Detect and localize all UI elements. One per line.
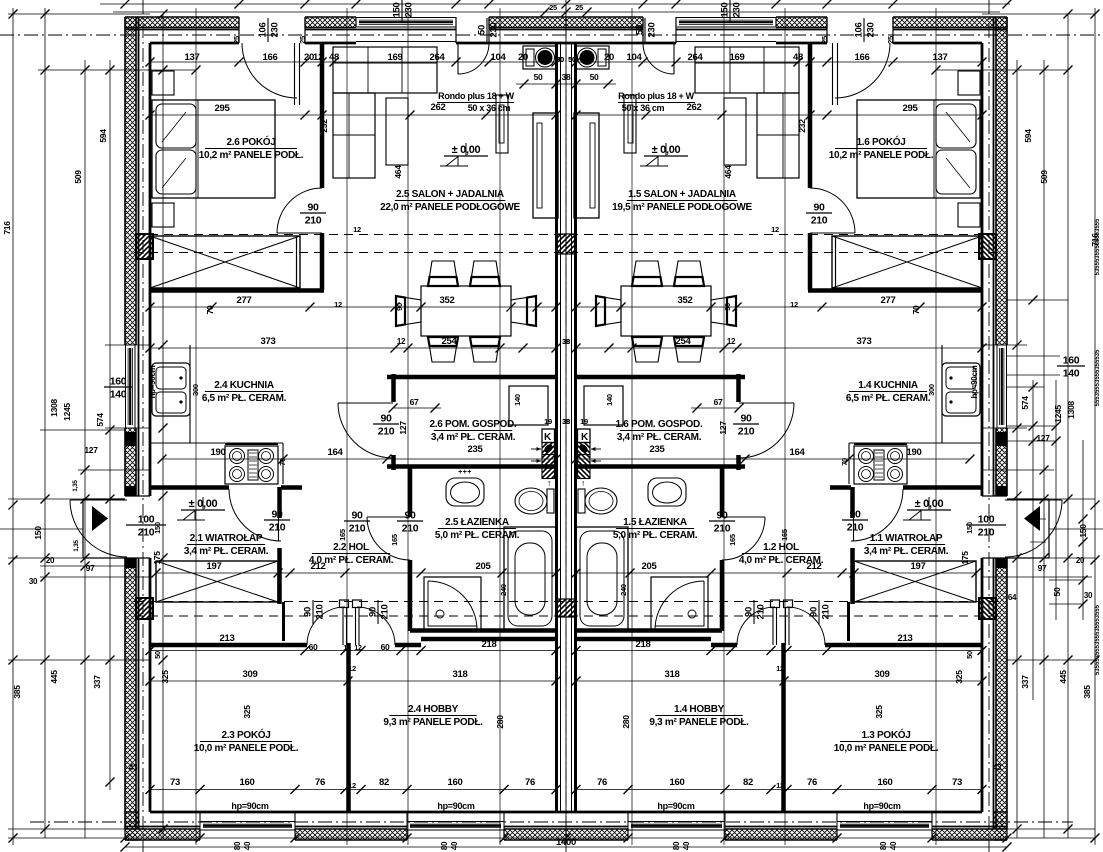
svg-text:hp=90cm: hp=90cm	[970, 365, 979, 398]
svg-text:80: 80	[672, 841, 681, 850]
svg-text:76: 76	[525, 777, 535, 788]
svg-text:1.5 SALON + JADALNIA: 1.5 SALON + JADALNIA	[628, 189, 736, 200]
svg-text:12: 12	[343, 645, 351, 652]
svg-text:160: 160	[240, 777, 255, 788]
svg-text:165: 165	[338, 529, 347, 541]
svg-text:76: 76	[807, 777, 817, 788]
svg-text:213: 213	[220, 633, 235, 644]
svg-text:210: 210	[738, 426, 755, 438]
svg-text:165: 165	[390, 534, 399, 546]
svg-text:90: 90	[307, 202, 319, 214]
svg-text:6,5 m² PŁ. CERAM.: 6,5 m² PŁ. CERAM.	[202, 393, 287, 404]
svg-text:38: 38	[562, 72, 571, 82]
svg-text:76: 76	[315, 777, 325, 788]
svg-text:30: 30	[1084, 591, 1093, 600]
svg-text:50: 50	[153, 651, 162, 659]
svg-text:50: 50	[556, 55, 564, 64]
svg-text:25: 25	[298, 36, 307, 44]
svg-text:1245: 1245	[62, 403, 72, 421]
svg-text:300: 300	[191, 384, 200, 396]
svg-text:352: 352	[440, 295, 455, 306]
svg-text:325: 325	[874, 705, 884, 719]
svg-text:277: 277	[881, 295, 896, 306]
svg-text:2.4 HOBBY: 2.4 HOBBY	[408, 704, 459, 715]
svg-text:4,0 m² PŁ. CERAM.: 4,0 m² PŁ. CERAM.	[309, 555, 394, 566]
svg-text:97: 97	[1038, 563, 1047, 573]
svg-text:90: 90	[740, 413, 752, 425]
svg-text:137: 137	[185, 52, 200, 63]
svg-text:2.2 HOL: 2.2 HOL	[333, 542, 369, 553]
svg-text:43: 43	[993, 763, 1002, 772]
svg-text:1.6 POKÓJ: 1.6 POKÓJ	[857, 135, 906, 148]
svg-text:127: 127	[84, 445, 98, 455]
svg-text:1.6 POM. GOSPOD.: 1.6 POM. GOSPOD.	[616, 419, 703, 430]
svg-text:210: 210	[378, 426, 395, 438]
svg-text:277: 277	[237, 295, 252, 306]
svg-text:166: 166	[855, 52, 870, 63]
svg-text:82: 82	[379, 777, 389, 788]
svg-text:70: 70	[840, 458, 849, 466]
svg-text:140: 140	[1063, 368, 1080, 380]
svg-text:90: 90	[723, 303, 732, 311]
svg-text:140: 140	[605, 394, 614, 406]
svg-text:50: 50	[635, 25, 646, 35]
svg-text:K: K	[544, 432, 552, 443]
svg-text:12: 12	[727, 337, 736, 346]
svg-text:137: 137	[933, 52, 948, 63]
svg-text:90: 90	[404, 510, 416, 522]
svg-text:9,3 m² PANELE PODŁ.: 9,3 m² PANELE PODŁ.	[649, 717, 749, 728]
svg-text:205: 205	[642, 561, 658, 572]
svg-text:10,0 m² PANELE PODŁ.: 10,0 m² PANELE PODŁ.	[194, 743, 299, 754]
svg-text:12: 12	[397, 337, 406, 346]
svg-text:1,35: 1,35	[73, 540, 80, 552]
svg-text:210: 210	[714, 523, 731, 535]
svg-text:60: 60	[309, 642, 318, 652]
svg-text:90: 90	[380, 413, 392, 425]
svg-text:90: 90	[849, 509, 861, 521]
svg-text:40: 40	[243, 841, 252, 850]
svg-text:197: 197	[207, 561, 222, 572]
svg-text:150: 150	[965, 522, 974, 534]
svg-text:12: 12	[776, 664, 784, 673]
svg-text:230: 230	[404, 3, 415, 18]
svg-text:53555355535553555: 53555355535553555	[1095, 218, 1101, 275]
svg-text:213: 213	[898, 633, 913, 644]
svg-text:210: 210	[978, 527, 995, 539]
svg-text:264: 264	[430, 52, 446, 63]
svg-text:373: 373	[261, 336, 276, 347]
svg-text:± 0,00: ± 0,00	[915, 498, 944, 510]
svg-text:445: 445	[49, 670, 59, 684]
svg-text:295: 295	[903, 103, 919, 114]
svg-text:160: 160	[670, 777, 685, 788]
svg-text:509: 509	[1039, 170, 1049, 184]
svg-text:90: 90	[744, 607, 755, 617]
svg-text:55535553555355535: 55535553555355535	[1095, 349, 1101, 406]
svg-text:106: 106	[258, 23, 269, 38]
svg-text:230: 230	[732, 3, 743, 18]
svg-text:106: 106	[854, 23, 865, 38]
svg-text:175: 175	[152, 551, 162, 565]
svg-text:262: 262	[431, 102, 446, 113]
svg-text:150: 150	[153, 522, 162, 534]
svg-text:232: 232	[319, 119, 329, 133]
svg-text:12: 12	[776, 781, 784, 790]
svg-text:hp=90cm: hp=90cm	[148, 365, 157, 398]
svg-text:574: 574	[1020, 396, 1030, 410]
svg-text:2.4 KUCHNIA: 2.4 KUCHNIA	[214, 380, 274, 391]
svg-text:2.6 POM. GOSPOD.: 2.6 POM. GOSPOD.	[430, 419, 517, 430]
svg-text:± 0,00: ± 0,00	[452, 144, 481, 156]
svg-text:40: 40	[450, 841, 459, 850]
svg-text:40: 40	[682, 841, 691, 850]
svg-text:160: 160	[110, 376, 127, 388]
svg-text:90: 90	[368, 607, 379, 617]
svg-text:+++: +++	[458, 469, 472, 476]
svg-text:385: 385	[12, 685, 22, 699]
svg-text:Rondo plus 18 + W: Rondo plus 18 + W	[438, 91, 514, 101]
svg-text:1.5 ŁAZIENKA: 1.5 ŁAZIENKA	[623, 517, 687, 528]
svg-text:445: 445	[1058, 670, 1068, 684]
svg-text:60: 60	[381, 642, 390, 652]
svg-text:127: 127	[718, 421, 728, 435]
svg-text:19: 19	[544, 417, 552, 426]
svg-text:325: 325	[242, 705, 252, 719]
svg-text:230: 230	[489, 23, 500, 38]
svg-text:12: 12	[348, 781, 356, 790]
svg-text:80: 80	[233, 841, 242, 850]
svg-text:210: 210	[349, 523, 366, 535]
svg-text:337: 337	[1020, 675, 1030, 689]
svg-text:210: 210	[269, 522, 286, 534]
svg-text:25: 25	[820, 36, 829, 44]
svg-text:140: 140	[513, 394, 522, 406]
svg-text:165: 165	[728, 534, 737, 546]
svg-text:3,4 m² PŁ. CERAM.: 3,4 m² PŁ. CERAM.	[431, 432, 516, 443]
svg-text:464: 464	[393, 165, 403, 179]
svg-text:373: 373	[857, 336, 872, 347]
svg-text:594: 594	[1023, 129, 1033, 143]
svg-text:48: 48	[329, 52, 339, 63]
svg-text:25: 25	[575, 3, 583, 12]
svg-text:50: 50	[590, 72, 599, 82]
svg-text:1.1 WIATROŁAP: 1.1 WIATROŁAP	[870, 533, 943, 544]
svg-text:82: 82	[743, 777, 753, 788]
svg-text:73: 73	[952, 777, 962, 788]
svg-text:3,4 m² PŁ. CERAM.: 3,4 m² PŁ. CERAM.	[184, 546, 269, 557]
svg-text:210: 210	[756, 605, 767, 620]
svg-text:240: 240	[619, 584, 628, 596]
svg-text:25: 25	[549, 3, 557, 12]
svg-text:262: 262	[687, 102, 702, 113]
svg-text:50: 50	[568, 55, 576, 64]
svg-text:3,4 m² PŁ. CERAM.: 3,4 m² PŁ. CERAM.	[617, 432, 702, 443]
svg-text:164: 164	[790, 447, 806, 458]
svg-text:318: 318	[453, 669, 468, 680]
svg-text:hp=90cm: hp=90cm	[437, 801, 474, 811]
svg-text:9,3 m² PANELE PODŁ.: 9,3 m² PANELE PODŁ.	[383, 717, 483, 728]
svg-text:2.5 ŁAZIENKA: 2.5 ŁAZIENKA	[445, 517, 509, 528]
svg-text:169: 169	[730, 52, 745, 63]
svg-text:67: 67	[714, 397, 723, 407]
svg-text:210: 210	[315, 605, 326, 620]
svg-text:264: 264	[688, 52, 704, 63]
svg-text:± 0,00: ± 0,00	[652, 144, 681, 156]
svg-text:12: 12	[348, 664, 356, 673]
svg-text:12: 12	[790, 300, 798, 309]
svg-text:197: 197	[911, 561, 926, 572]
svg-text:140: 140	[110, 389, 127, 401]
svg-text:509: 509	[73, 170, 83, 184]
svg-text:4,0 m² PŁ. CERAM.: 4,0 m² PŁ. CERAM.	[739, 555, 824, 566]
svg-text:5,0 m² PŁ. CERAM.: 5,0 m² PŁ. CERAM.	[435, 530, 520, 541]
svg-text:1,35: 1,35	[72, 480, 79, 492]
svg-text:10,0 m² PANELE PODŁ.: 10,0 m² PANELE PODŁ.	[834, 743, 939, 754]
svg-text:80: 80	[879, 841, 888, 850]
svg-text:90: 90	[303, 607, 314, 617]
svg-text:1.4 HOBBY: 1.4 HOBBY	[674, 704, 725, 715]
svg-text:K: K	[581, 432, 589, 443]
svg-text:10,2 m² PANELE PODŁ.: 10,2 m² PANELE PODŁ.	[829, 150, 934, 161]
svg-text:325: 325	[954, 670, 964, 684]
svg-text:25: 25	[886, 36, 895, 44]
svg-text:127: 127	[398, 421, 408, 435]
svg-text:385: 385	[1082, 685, 1092, 699]
svg-text:150: 150	[720, 3, 731, 18]
svg-text:218: 218	[482, 639, 497, 650]
svg-text:90: 90	[395, 303, 404, 311]
svg-text:190: 190	[907, 447, 922, 458]
svg-text:165: 165	[780, 529, 789, 541]
svg-text:1400: 1400	[556, 837, 576, 848]
svg-text:90: 90	[271, 509, 283, 521]
svg-text:12: 12	[354, 645, 362, 652]
svg-text:160: 160	[448, 777, 463, 788]
svg-text:716: 716	[2, 221, 12, 235]
svg-text:12: 12	[353, 225, 361, 234]
svg-text:254: 254	[676, 336, 692, 347]
svg-text:90: 90	[813, 202, 825, 214]
svg-text:38: 38	[562, 337, 570, 346]
svg-text:22,0 m² PANELE PODŁOGOWE: 22,0 m² PANELE PODŁOGOWE	[380, 202, 520, 213]
svg-text:100: 100	[978, 514, 995, 526]
svg-text:210: 210	[402, 523, 419, 535]
svg-text:2.3 POKÓJ: 2.3 POKÓJ	[222, 728, 271, 741]
svg-text:210: 210	[847, 522, 864, 534]
svg-text:43: 43	[129, 763, 138, 772]
svg-text:104: 104	[627, 52, 643, 63]
svg-text:150: 150	[1078, 524, 1088, 538]
svg-text:73: 73	[170, 777, 180, 788]
svg-text:594: 594	[98, 129, 108, 143]
svg-text:254: 254	[442, 336, 458, 347]
svg-text:48: 48	[793, 52, 803, 63]
svg-text:218: 218	[636, 639, 651, 650]
svg-text:337: 337	[92, 675, 102, 689]
svg-text:230: 230	[647, 23, 658, 38]
svg-text:2.5 SALON + JADALNIA: 2.5 SALON + JADALNIA	[396, 189, 504, 200]
svg-text:210: 210	[380, 605, 391, 620]
svg-text:150: 150	[392, 3, 403, 18]
svg-text:25: 25	[232, 36, 241, 44]
svg-text:20: 20	[1076, 556, 1085, 565]
svg-text:12: 12	[313, 52, 323, 63]
svg-text:1245: 1245	[1053, 405, 1063, 423]
svg-text:64: 64	[1008, 593, 1017, 602]
svg-text:166: 166	[263, 52, 278, 63]
svg-text:127: 127	[1036, 433, 1050, 443]
svg-text:232: 232	[797, 119, 807, 133]
svg-text:70: 70	[278, 458, 287, 466]
svg-text:1308: 1308	[1066, 401, 1076, 419]
svg-text:574: 574	[95, 413, 105, 427]
svg-text:hp=90cm: hp=90cm	[863, 801, 900, 811]
svg-text:± 0,00: ± 0,00	[189, 498, 218, 510]
svg-text:150: 150	[33, 526, 43, 540]
svg-text:70: 70	[911, 305, 921, 314]
svg-text:97: 97	[86, 563, 95, 573]
svg-text:90: 90	[716, 510, 728, 522]
svg-text:210: 210	[305, 215, 322, 227]
svg-text:50: 50	[1052, 587, 1062, 596]
svg-text:1.2 HOL: 1.2 HOL	[763, 542, 799, 553]
svg-text:295: 295	[215, 103, 231, 114]
svg-text:235: 235	[650, 444, 666, 455]
svg-text:hp=90cm: hp=90cm	[231, 801, 268, 811]
svg-text:40: 40	[889, 841, 898, 850]
svg-text:164: 164	[328, 447, 344, 458]
svg-text:230: 230	[866, 23, 877, 38]
svg-text:6,5 m² PŁ. CERAM.: 6,5 m² PŁ. CERAM.	[846, 393, 931, 404]
svg-text:80: 80	[440, 841, 449, 850]
svg-text:50: 50	[534, 72, 543, 82]
svg-text:318: 318	[665, 669, 680, 680]
svg-text:12: 12	[771, 225, 779, 234]
svg-text:76: 76	[597, 777, 607, 788]
svg-text:1308: 1308	[49, 399, 59, 417]
svg-text:169: 169	[388, 52, 403, 63]
svg-text:10,2 m² PANELE PODŁ.: 10,2 m² PANELE PODŁ.	[199, 150, 304, 161]
svg-text:300: 300	[927, 384, 936, 396]
svg-text:↑: ↑	[581, 478, 585, 488]
svg-text:67: 67	[410, 397, 419, 407]
svg-text:160: 160	[1063, 355, 1080, 367]
svg-text:19,5 m² PANELE PODŁOGOWE: 19,5 m² PANELE PODŁOGOWE	[612, 202, 752, 213]
svg-text:2.6 POKÓJ: 2.6 POKÓJ	[227, 135, 276, 148]
svg-text:464: 464	[723, 165, 733, 179]
svg-text:20: 20	[604, 52, 614, 63]
svg-text:175: 175	[960, 551, 970, 565]
svg-text:50: 50	[477, 25, 488, 35]
svg-text:19: 19	[580, 417, 588, 426]
svg-text:240: 240	[499, 584, 508, 596]
svg-text:50: 50	[965, 651, 974, 659]
svg-text:12: 12	[334, 300, 342, 309]
svg-text:210: 210	[821, 605, 832, 620]
svg-text:280: 280	[495, 715, 505, 729]
svg-text:90: 90	[809, 607, 820, 617]
svg-text:1.4 KUCHNIA: 1.4 KUCHNIA	[858, 380, 918, 391]
svg-text:5,0 m² PŁ. CERAM.: 5,0 m² PŁ. CERAM.	[613, 530, 698, 541]
svg-text:↑: ↑	[547, 478, 551, 488]
svg-text:2.1 WIATROŁAP: 2.1 WIATROŁAP	[190, 533, 263, 544]
svg-text:309: 309	[243, 669, 258, 680]
svg-text:Rondo plus 18 + W: Rondo plus 18 + W	[618, 91, 694, 101]
svg-text:205: 205	[476, 561, 492, 572]
svg-text:280: 280	[621, 715, 631, 729]
svg-text:hp=90cm: hp=90cm	[657, 801, 694, 811]
svg-text:210: 210	[811, 215, 828, 227]
svg-text:235: 235	[468, 444, 484, 455]
svg-text:20: 20	[46, 556, 55, 565]
svg-text:20: 20	[518, 52, 528, 63]
svg-text:190: 190	[211, 447, 226, 458]
svg-text:3,4 m² PŁ. CERAM.: 3,4 m² PŁ. CERAM.	[864, 546, 949, 557]
svg-text:352: 352	[678, 295, 693, 306]
svg-text:50 x 36 cm: 50 x 36 cm	[622, 103, 665, 113]
svg-text:104: 104	[491, 52, 507, 63]
svg-text:30: 30	[29, 577, 38, 586]
svg-text:309: 309	[875, 669, 890, 680]
svg-text:70: 70	[205, 305, 215, 314]
svg-text:1.3 POKÓJ: 1.3 POKÓJ	[862, 728, 911, 741]
svg-text:325: 325	[160, 670, 170, 684]
svg-text:535553555355535553555: 535553555355535553555	[1095, 604, 1101, 675]
svg-text:90: 90	[351, 510, 363, 522]
svg-text:50 x 36 cm: 50 x 36 cm	[468, 103, 511, 113]
svg-text:160: 160	[878, 777, 893, 788]
svg-text:38: 38	[562, 417, 570, 426]
svg-text:230: 230	[270, 23, 281, 38]
